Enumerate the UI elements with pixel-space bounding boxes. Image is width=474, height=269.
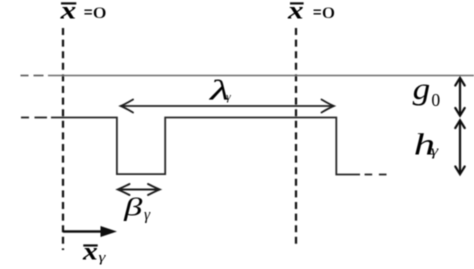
lambda period double arrow	[121, 100, 334, 113]
label lambda_r	[208, 75, 231, 106]
label x-bar_r (axis)	[82, 238, 106, 265]
svg-text:0: 0	[431, 90, 440, 110]
h groove-depth double arrow (vertical)	[455, 120, 464, 174]
svg-text:β: β	[123, 195, 144, 222]
x_r axis arrow (bottom)	[63, 226, 117, 237]
svg-text:=: =	[313, 3, 322, 23]
svg-text:γ: γ	[144, 207, 151, 224]
svg-text:x: x	[82, 238, 98, 265]
dashed boundary line 2	[295, 28, 297, 245]
svg-text:0: 0	[322, 5, 336, 22]
g0 gap double arrow (vertical)	[455, 78, 464, 116]
svg-text:γ: γ	[431, 143, 439, 159]
label beta_r	[123, 195, 151, 224]
left dashes of surface	[21, 117, 29, 119]
top reference line (gray) with left dashes	[21, 75, 474, 77]
svg-text:=: =	[84, 3, 93, 23]
beta groove-width double arrow	[118, 184, 160, 195]
surface with groove 1 and groove 2	[51, 118, 360, 175]
label h_r	[414, 127, 439, 162]
grating surface profile polyline with grooves	[21, 118, 387, 175]
svg-text:0: 0	[93, 5, 107, 22]
node x1=0 label (left boundary)	[59, 0, 106, 25]
dashed boundary line 1	[62, 28, 64, 250]
node x2=0 label (right boundary)	[287, 0, 336, 25]
right dashes of groove bottom	[365, 174, 373, 176]
label g_0	[413, 71, 441, 110]
svg-text:g: g	[413, 71, 431, 106]
svg-text:γ: γ	[99, 250, 107, 265]
